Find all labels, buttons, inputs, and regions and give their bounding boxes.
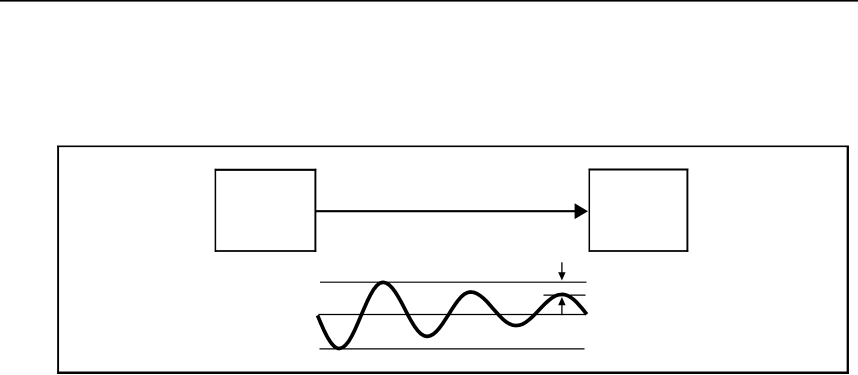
damped sine wave <box>318 282 587 348</box>
arrow down shaft <box>561 262 563 274</box>
wire arrow shaft <box>315 210 576 212</box>
reference line bottom <box>320 348 585 350</box>
arrowhead down <box>558 272 565 280</box>
reference line middle <box>318 314 585 316</box>
figure border <box>57 145 849 374</box>
arrowhead up <box>558 297 565 305</box>
reference line short <box>544 294 586 296</box>
box right <box>589 168 689 251</box>
header rule <box>0 0 858 2</box>
arrow up shaft <box>561 304 563 316</box>
box left <box>215 169 317 252</box>
arrowhead right <box>575 203 588 219</box>
reference line top <box>320 281 587 283</box>
